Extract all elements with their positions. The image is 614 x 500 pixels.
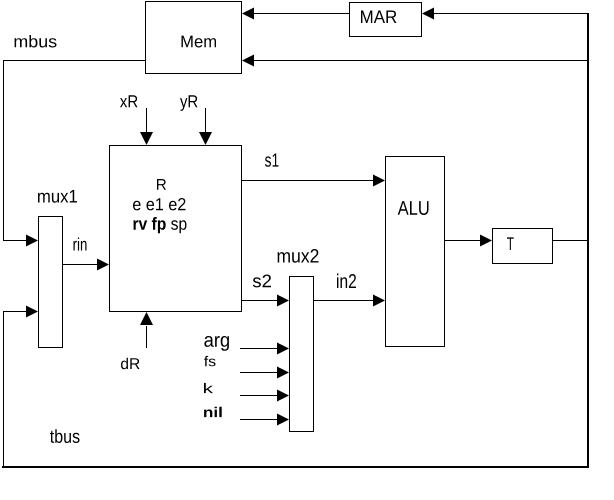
arrowhead arg into mux2 xyxy=(277,343,289,355)
label tbus xyxy=(50,429,80,443)
wire tbus left vertical to mux1 xyxy=(4,312,27,467)
arrowhead rin into R xyxy=(97,259,109,271)
arrowhead ALU out into T xyxy=(480,235,492,247)
block T xyxy=(493,229,553,264)
label MAR xyxy=(361,11,397,24)
wire nil into mux2 xyxy=(240,419,277,421)
block ALU xyxy=(386,157,445,347)
arrowhead in2 into ALU xyxy=(373,295,385,307)
arrowhead s2 into mux2 xyxy=(277,295,289,307)
arrowhead into MAR xyxy=(422,8,434,20)
arrowhead s1 into ALU xyxy=(373,175,385,187)
block Mem xyxy=(146,2,242,74)
label e e1 e2 xyxy=(133,198,186,210)
wire mbus from Mem to mux1 xyxy=(4,61,146,241)
label mux1 xyxy=(38,190,77,203)
wire right bus to Mem xyxy=(254,60,589,62)
wire k into mux2 xyxy=(240,395,277,397)
arrowhead fs into mux2 xyxy=(277,367,289,379)
wire rin from mux1 to R xyxy=(63,264,98,266)
label s1 xyxy=(265,154,279,167)
wire ALU to T xyxy=(445,240,481,242)
label yR xyxy=(180,95,198,111)
wire s2 from R to mux2 xyxy=(242,300,278,302)
wire s1 from R to ALU xyxy=(242,180,374,182)
arrowhead into Mem lower xyxy=(242,55,254,67)
label rin xyxy=(74,238,87,251)
label fs xyxy=(204,356,216,366)
label T xyxy=(507,237,514,250)
arrowhead mbus into mux1 xyxy=(26,235,38,247)
label k xyxy=(204,383,213,393)
arrowhead tbus into mux1 xyxy=(26,306,38,318)
block mux1 xyxy=(39,217,63,348)
label in2 xyxy=(337,274,356,289)
label mbus xyxy=(15,35,57,48)
arrowhead into Mem top xyxy=(242,8,254,20)
label mux2 xyxy=(278,249,319,263)
arrowhead k into mux2 xyxy=(277,390,289,402)
arrowhead nil into mux2 xyxy=(277,414,289,426)
wire arg into mux2 xyxy=(240,348,277,350)
label s2 xyxy=(253,275,271,288)
block mux2 xyxy=(290,277,314,432)
wire in2 from mux2 to ALU xyxy=(314,300,374,302)
label Mem xyxy=(182,36,217,48)
wire right bus to MAR xyxy=(433,13,589,15)
block R xyxy=(110,146,242,312)
label ALU xyxy=(398,201,429,215)
label arg xyxy=(204,336,229,351)
block MAR xyxy=(350,3,422,37)
wire T to right bus xyxy=(553,240,589,242)
wire fs into mux2 xyxy=(240,372,277,374)
wire dR into R xyxy=(146,326,148,348)
label dR xyxy=(121,358,140,370)
wire MAR to Mem xyxy=(253,13,350,15)
wire xR into R xyxy=(146,108,148,133)
label R xyxy=(157,179,166,190)
wire yR into R xyxy=(205,108,207,133)
arrowhead xR down into R xyxy=(140,132,153,145)
label xR xyxy=(120,95,138,107)
arrowhead dR up into R xyxy=(140,312,153,325)
arrowhead yR down into R xyxy=(199,132,212,145)
label rv fp sp xyxy=(134,217,187,233)
wire right bus vertical xyxy=(587,14,589,468)
wire tbus bottom horizontal xyxy=(2,466,589,468)
label nil xyxy=(204,407,222,417)
